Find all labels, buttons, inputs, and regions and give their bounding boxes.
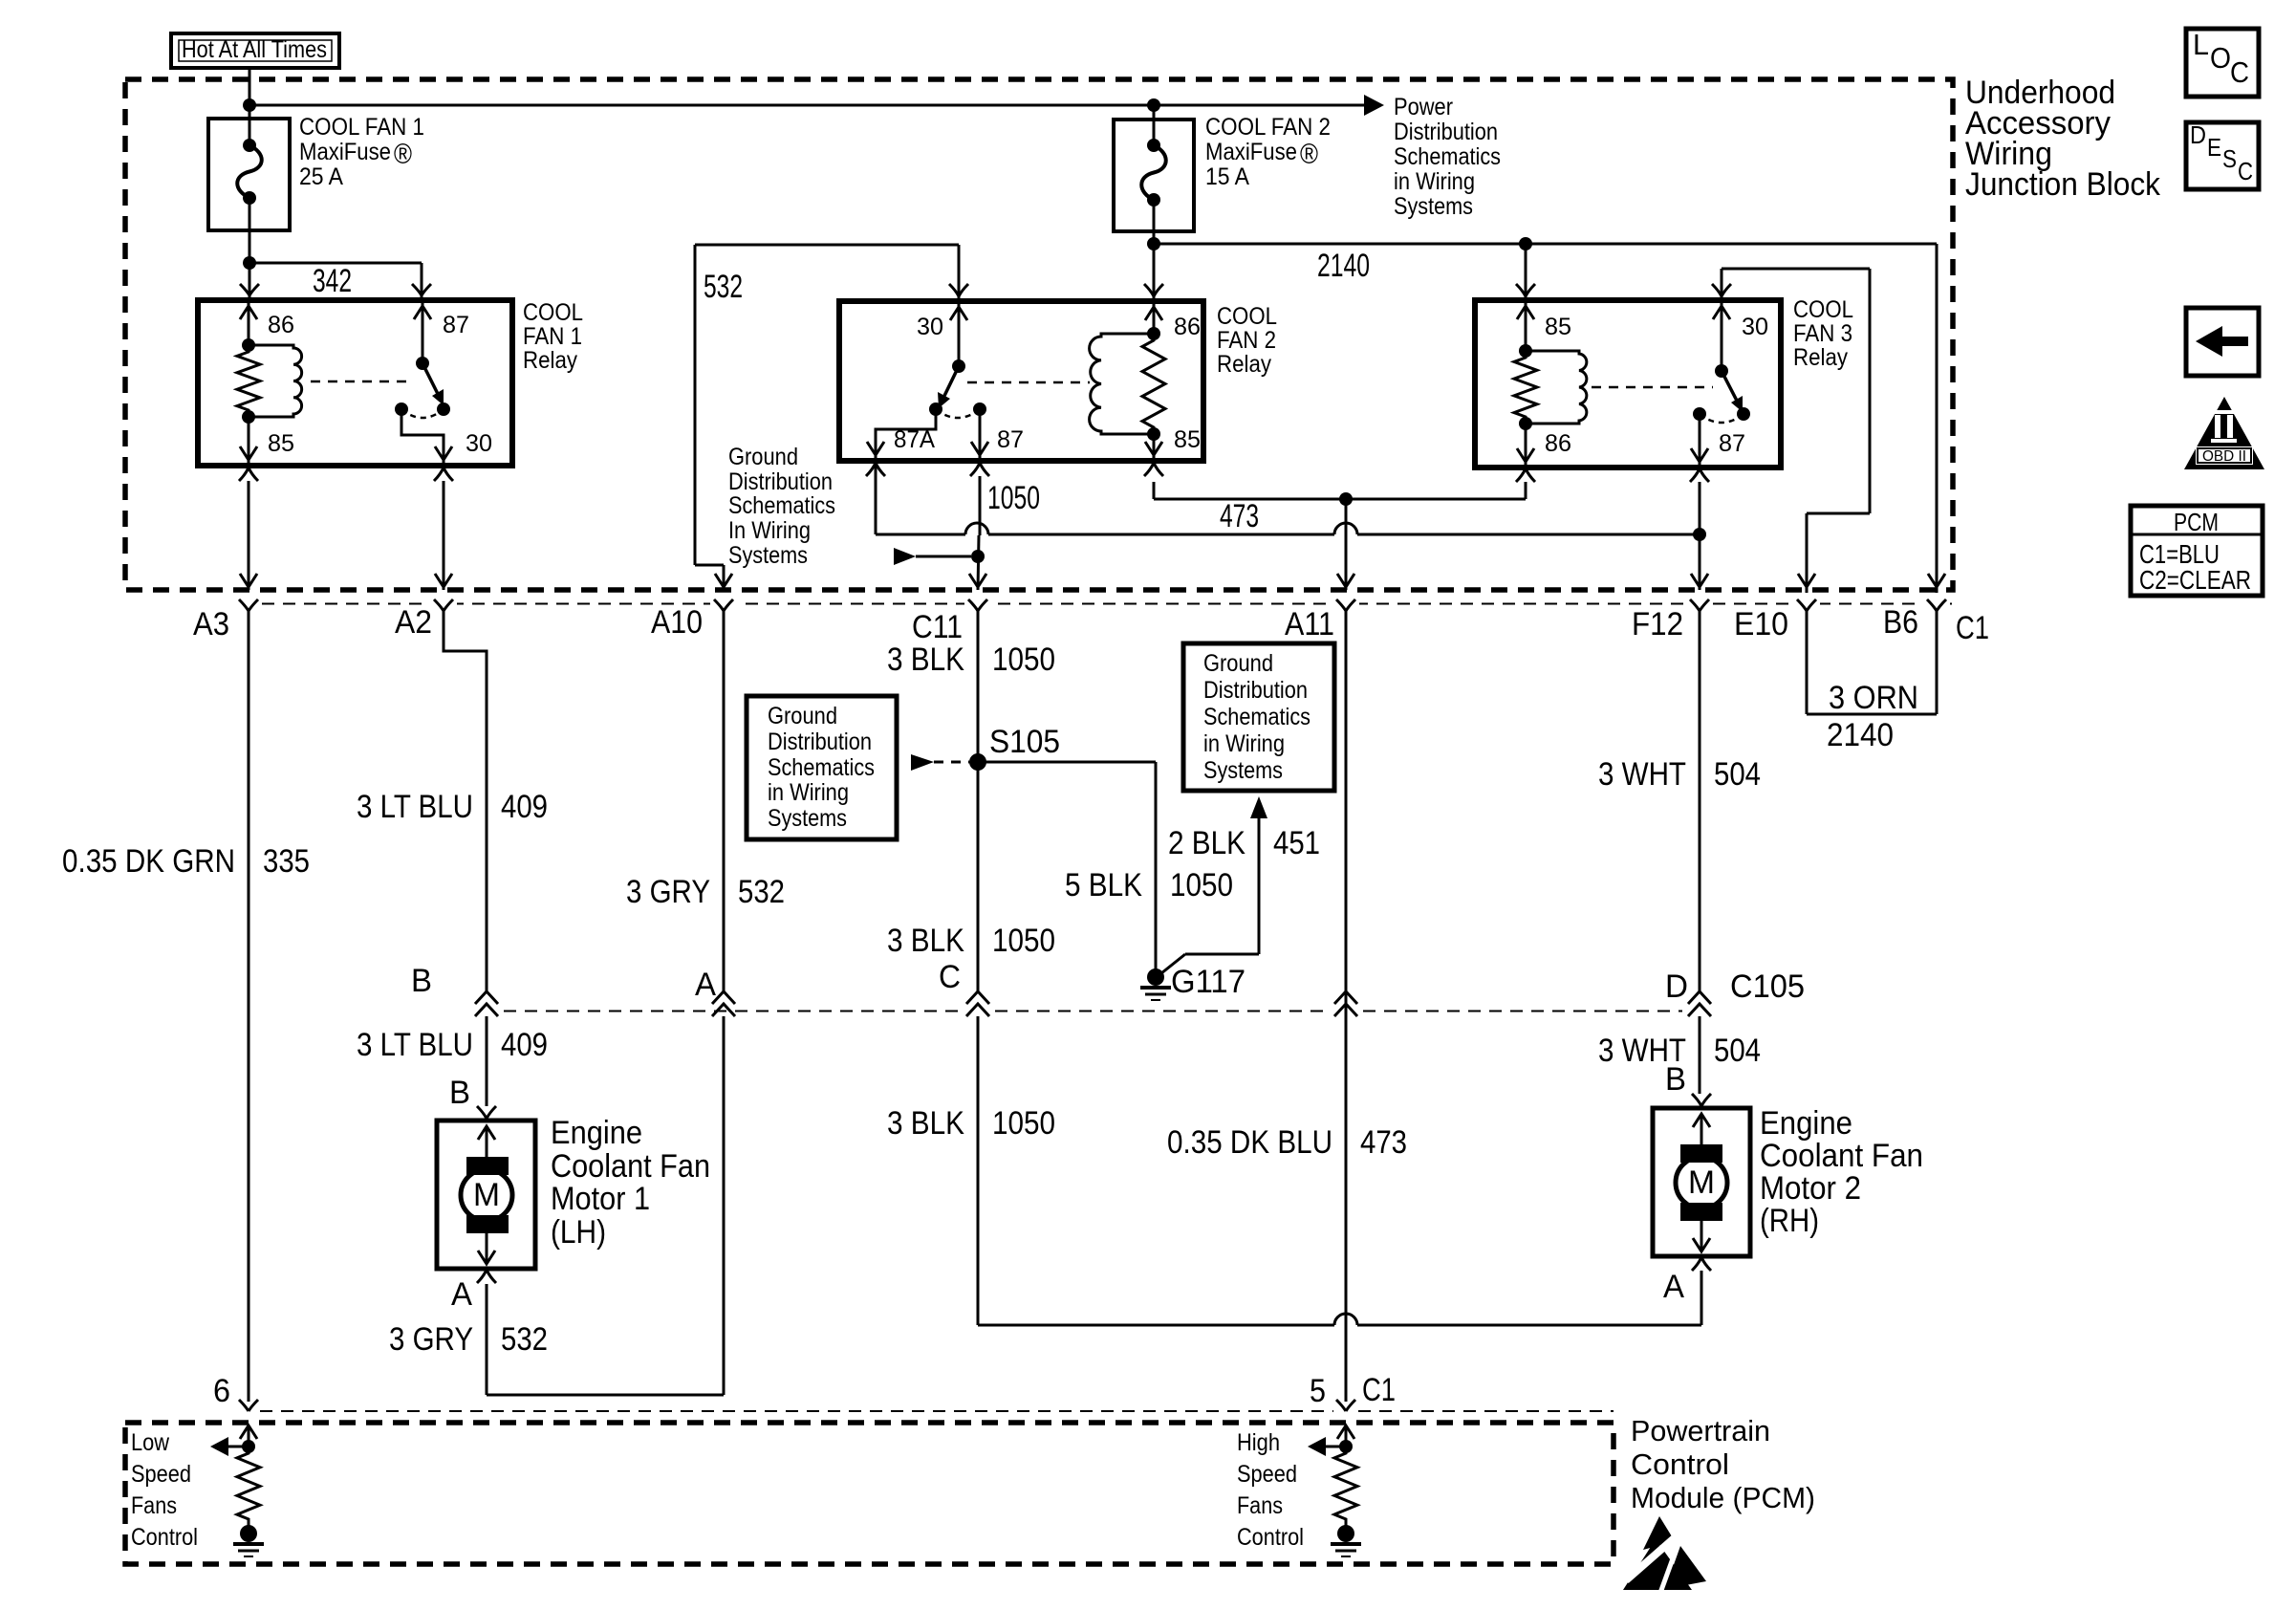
svg-text:Speed: Speed [1237, 1461, 1297, 1488]
svg-text:D: D [1665, 968, 1688, 1005]
svg-text:409: 409 [501, 1027, 548, 1063]
svg-text:A: A [1663, 1269, 1684, 1305]
svg-text:E: E [2207, 133, 2221, 162]
svg-text:S: S [2222, 144, 2237, 173]
svg-text:Engine: Engine [1760, 1105, 1852, 1142]
svg-text:2 BLK: 2 BLK [1168, 825, 1245, 861]
svg-text:504: 504 [1714, 1033, 1761, 1069]
svg-text:A: A [451, 1276, 472, 1313]
svg-text:1050: 1050 [992, 642, 1055, 678]
svg-text:409: 409 [501, 789, 548, 825]
svg-text:M: M [1688, 1164, 1715, 1201]
svg-text:(RH): (RH) [1760, 1203, 1819, 1239]
svg-text:Engine: Engine [551, 1115, 642, 1151]
svg-text:3 ORN: 3 ORN [1829, 680, 1918, 716]
svg-text:Systems: Systems [768, 805, 847, 832]
svg-text:0.35 DK GRN: 0.35 DK GRN [62, 843, 235, 880]
svg-text:(LH): (LH) [551, 1214, 606, 1251]
svg-text:Control: Control [1237, 1524, 1304, 1551]
svg-text:Systems: Systems [1203, 757, 1283, 784]
svg-text:COOL FAN 1: COOL FAN 1 [299, 114, 424, 141]
svg-text:Distribution: Distribution [1203, 677, 1308, 704]
svg-text:B: B [1665, 1061, 1686, 1098]
svg-text:532: 532 [501, 1321, 548, 1358]
svg-text:A: A [695, 967, 716, 1003]
svg-text:85: 85 [1174, 426, 1201, 453]
svg-text:Systems: Systems [728, 542, 808, 569]
svg-text:15 A: 15 A [1205, 163, 1249, 190]
svg-text:Distribution: Distribution [768, 729, 872, 755]
svg-text:85: 85 [268, 430, 294, 457]
svg-text:532: 532 [738, 874, 785, 910]
svg-text:Fans: Fans [131, 1492, 177, 1519]
svg-text:Distribution: Distribution [1394, 119, 1498, 145]
svg-text:0.35 DK BLU: 0.35 DK BLU [1167, 1124, 1332, 1161]
svg-text:C: C [939, 959, 961, 995]
svg-text:Relay: Relay [1217, 351, 1271, 378]
svg-text:87: 87 [443, 312, 469, 338]
svg-text:O: O [2210, 41, 2231, 75]
svg-text:Fans: Fans [1237, 1492, 1283, 1519]
svg-text:®: ® [394, 139, 412, 170]
svg-text:1050: 1050 [987, 480, 1040, 516]
svg-text:1050: 1050 [992, 923, 1055, 959]
svg-text:in Wiring: in Wiring [1203, 730, 1285, 757]
svg-text:3 BLK: 3 BLK [887, 923, 964, 959]
svg-text:3 LT BLU: 3 LT BLU [357, 789, 473, 825]
svg-text:L: L [2193, 28, 2209, 61]
svg-text:3 BLK: 3 BLK [887, 1105, 964, 1142]
svg-text:87A: 87A [894, 426, 935, 453]
svg-text:86: 86 [268, 312, 294, 338]
svg-text:5: 5 [1310, 1373, 1326, 1409]
svg-text:COOL: COOL [523, 299, 583, 326]
svg-text:Module (PCM): Module (PCM) [1631, 1481, 1815, 1514]
svg-text:Control: Control [131, 1524, 198, 1551]
svg-text:G117: G117 [1171, 964, 1245, 1000]
svg-text:Schematics: Schematics [1203, 704, 1310, 730]
svg-text:S105: S105 [989, 724, 1060, 760]
svg-text:A11: A11 [1285, 606, 1334, 642]
svg-text:87: 87 [1719, 430, 1745, 457]
svg-text:335: 335 [263, 843, 310, 880]
svg-text:Relay: Relay [1793, 344, 1848, 371]
svg-text:451: 451 [1273, 825, 1320, 861]
svg-text:Distribution: Distribution [728, 468, 833, 495]
svg-text:Relay: Relay [523, 347, 577, 374]
svg-text:In Wiring: In Wiring [728, 517, 811, 544]
svg-text:MaxiFuse: MaxiFuse [299, 139, 391, 165]
svg-text:Hot At All Times: Hot At All Times [182, 36, 327, 63]
svg-text:COOL: COOL [1793, 296, 1853, 323]
svg-text:OBD II: OBD II [2202, 448, 2246, 465]
svg-text:C105: C105 [1730, 968, 1805, 1005]
svg-text:86: 86 [1174, 314, 1201, 340]
svg-text:B: B [411, 963, 432, 999]
svg-text:Powertrain: Powertrain [1631, 1414, 1770, 1447]
svg-text:473: 473 [1220, 498, 1259, 534]
svg-text:B: B [449, 1075, 470, 1111]
svg-text:Low: Low [131, 1429, 170, 1456]
svg-text:B6: B6 [1883, 604, 1918, 641]
svg-text:85: 85 [1545, 314, 1571, 340]
svg-text:COOL FAN 2: COOL FAN 2 [1205, 114, 1331, 141]
svg-text:COOL: COOL [1217, 303, 1277, 330]
svg-text:Schematics: Schematics [728, 492, 835, 519]
svg-text:25 A: 25 A [299, 163, 343, 190]
svg-text:1050: 1050 [1170, 867, 1233, 903]
svg-text:FAN 2: FAN 2 [1217, 327, 1276, 354]
svg-text:87: 87 [997, 426, 1024, 453]
svg-text:C: C [2230, 55, 2249, 89]
svg-text:FAN 3: FAN 3 [1793, 320, 1852, 347]
svg-text:86: 86 [1545, 430, 1571, 457]
svg-text:Systems: Systems [1394, 193, 1473, 220]
svg-text:PCM: PCM [2174, 508, 2219, 536]
svg-text:1050: 1050 [992, 1105, 1055, 1142]
svg-text:Schematics: Schematics [1394, 143, 1501, 170]
svg-text:2140: 2140 [1827, 717, 1894, 753]
svg-text:Power: Power [1394, 94, 1453, 120]
svg-text:MaxiFuse: MaxiFuse [1205, 139, 1297, 165]
svg-text:in Wiring: in Wiring [768, 779, 849, 806]
svg-text:5 BLK: 5 BLK [1065, 867, 1142, 903]
svg-text:Motor 1: Motor 1 [551, 1181, 650, 1217]
svg-text:3 GRY: 3 GRY [626, 874, 710, 910]
svg-text:M: M [473, 1177, 500, 1213]
svg-text:Junction Block: Junction Block [1965, 166, 2161, 203]
svg-text:Speed: Speed [131, 1461, 191, 1488]
svg-text:532: 532 [704, 269, 743, 305]
svg-text:30: 30 [1742, 314, 1768, 340]
svg-text:3 GRY: 3 GRY [389, 1321, 473, 1358]
svg-text:504: 504 [1714, 756, 1761, 793]
svg-text:C1: C1 [1362, 1372, 1396, 1408]
svg-text:30: 30 [917, 314, 943, 340]
svg-text:in Wiring: in Wiring [1394, 168, 1475, 195]
svg-text:C2=CLEAR: C2=CLEAR [2139, 565, 2251, 595]
svg-text:6: 6 [213, 1373, 230, 1409]
svg-text:Schematics: Schematics [768, 754, 875, 781]
svg-text:3 WHT: 3 WHT [1598, 756, 1686, 793]
svg-text:E10: E10 [1734, 606, 1788, 642]
svg-text:Ground: Ground [728, 444, 798, 470]
svg-text:C1: C1 [1956, 610, 1989, 646]
svg-text:Control: Control [1631, 1447, 1729, 1481]
svg-text:Ground: Ground [1203, 650, 1273, 677]
svg-text:D: D [2190, 120, 2206, 149]
svg-text:Coolant Fan: Coolant Fan [1760, 1138, 1923, 1174]
svg-text:A10: A10 [651, 604, 703, 641]
svg-text:Motor 2: Motor 2 [1760, 1170, 1861, 1207]
svg-text:3 LT BLU: 3 LT BLU [357, 1027, 473, 1063]
svg-text:A3: A3 [193, 606, 229, 642]
svg-text:Coolant Fan: Coolant Fan [551, 1148, 710, 1185]
svg-text:C: C [2238, 157, 2253, 185]
svg-text:Ground: Ground [768, 703, 837, 729]
svg-text:3 BLK: 3 BLK [887, 642, 964, 678]
svg-text:F12: F12 [1632, 606, 1683, 642]
svg-text:342: 342 [313, 263, 352, 299]
svg-text:®: ® [1300, 139, 1318, 170]
svg-text:C11: C11 [912, 609, 963, 645]
svg-text:30: 30 [466, 430, 492, 457]
svg-text:473: 473 [1360, 1124, 1407, 1161]
svg-text:High: High [1237, 1429, 1280, 1456]
svg-text:2140: 2140 [1317, 248, 1370, 284]
svg-text:A2: A2 [395, 604, 432, 641]
svg-text:FAN 1: FAN 1 [523, 323, 582, 350]
